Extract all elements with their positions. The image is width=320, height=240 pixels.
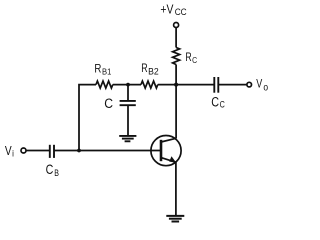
svg-text:i: i [12,148,14,159]
label CB [46,162,59,179]
svg-text:R: R [141,61,148,75]
svg-text:C: C [46,162,54,177]
label RB1 [94,62,111,77]
wire C node down [127,85,129,101]
label RB2 [141,61,159,77]
svg-text:C: C [211,95,219,110]
svg-text:C: C [104,96,113,111]
resistor RB2 [141,81,158,88]
svg-text:B1: B1 [102,66,112,76]
svg-text:+V: +V [160,2,173,17]
junction dot collector node [174,83,178,87]
svg-text:o: o [263,83,268,94]
ground (emitter) [166,216,184,222]
wire emitter to ground [175,162,177,215]
label Vo [256,79,268,94]
label +VCC [160,2,187,18]
ground (C bypass) [119,136,136,141]
resistor RB1 [96,81,113,88]
wire left branch: down from RB1 line to base line [79,85,96,151]
wire CC to Vo [218,84,246,86]
capacitor CB [50,145,54,158]
svg-text:V: V [256,79,262,91]
wire RB1 to RB2 [113,84,141,86]
capacitor C [120,101,136,105]
svg-text:C: C [220,100,226,110]
wire VCC to RC [175,28,177,48]
label Vi [5,143,14,159]
resistor RC [173,48,180,65]
svg-text:C: C [192,55,197,65]
wire Vi to CB [26,150,49,152]
node +VCC terminal [174,23,179,28]
label CC [211,95,225,110]
wire C to ground [127,105,129,135]
node Vi terminal [21,148,26,153]
wire RC to collector node (vertical through junction) [175,65,177,139]
wire RB2 to CC [158,84,214,86]
junction dot RB1/C node [126,83,130,87]
svg-text:R: R [185,50,192,64]
junction dot base node [77,149,81,153]
svg-text:B2: B2 [148,66,159,76]
svg-text:V: V [5,143,12,158]
label RC [185,50,197,65]
node Vo terminal [247,82,252,87]
transistor Q1 [151,136,181,166]
svg-text:R: R [94,62,101,76]
svg-text:B: B [54,168,59,179]
wire CB to base [54,150,161,152]
capacitor CC [214,77,218,93]
svg-text:CC: CC [175,7,187,17]
